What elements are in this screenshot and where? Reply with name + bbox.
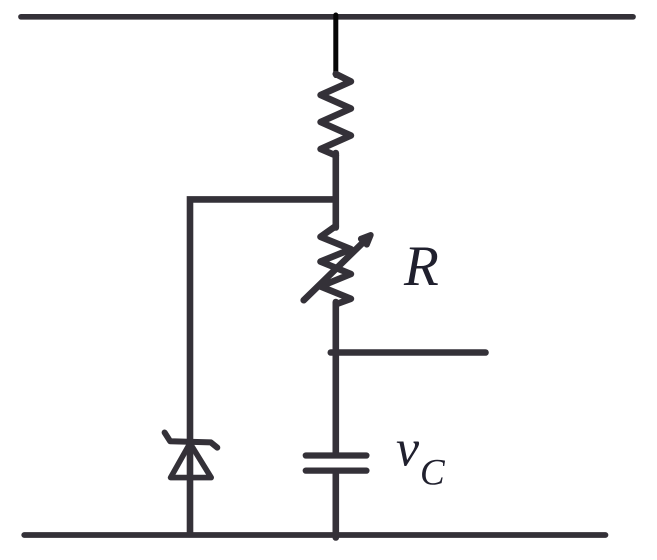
top supply rail [21,14,633,20]
wire resistor bottom to variable resistor top [332,153,339,228]
variable resistor arrowhead [361,235,371,245]
zener diode bar with bent ends [165,433,218,448]
wire from top rail to resistor (black) [333,15,338,76]
wire variable resistor to capacitor [332,302,339,454]
node stub wire (output tap) [331,349,486,356]
zener diode triangle [171,443,212,477]
wire left branch: horizontal + vertical to zener [190,199,336,535]
resistor R1 zigzag [321,74,351,156]
variable resistor arrow shaft [304,244,362,301]
svg-text:R: R [403,235,439,298]
capacitor bottom plate [306,467,367,473]
variable resistor R zigzag [321,226,351,304]
svg-text:C: C [420,453,446,494]
svg-text:v: v [396,421,420,478]
wire capacitor to bottom rail [332,473,339,538]
bottom ground rail [24,532,605,538]
capacitor top plate [306,452,367,458]
